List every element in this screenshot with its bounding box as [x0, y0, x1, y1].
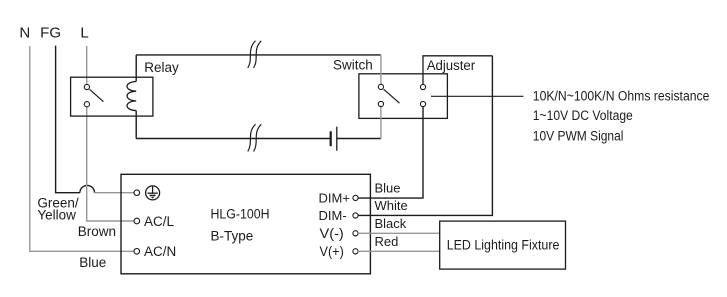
terminal DIM+ pin	[353, 195, 358, 200]
switch blade	[384, 89, 400, 103]
note line 1: ohms resistance	[533, 89, 710, 104]
wire FG vertical+horizontal (black, from FG down to ground row)	[56, 46, 80, 193]
note line 3: pwm signal	[533, 128, 624, 143]
adjuster top pin	[420, 84, 425, 89]
battery BT positive long plate	[336, 127, 338, 151]
terminal DIM- label	[319, 208, 347, 223]
wire L upper (grey, from L down to relay contact)	[86, 46, 88, 85]
node L label	[80, 25, 88, 42]
svg-text:Relay: Relay	[144, 60, 179, 75]
break marks on bottom wire	[248, 124, 261, 151]
wire N (grey, from N down and right to AC/N terminal)	[30, 46, 134, 251]
svg-text:White: White	[375, 198, 408, 213]
wire switch riser lower (grey)	[380, 107, 382, 139]
adjuster wiper pointer line	[431, 95, 523, 97]
svg-text:N: N	[19, 25, 30, 42]
switch bottom pin	[378, 101, 383, 106]
wire switch riser upper (grey)	[380, 55, 382, 85]
terminal AC/L label	[144, 214, 175, 229]
svg-text:Red: Red	[375, 234, 399, 249]
svg-text:HLG-100H: HLG-100H	[211, 207, 270, 222]
svg-text:Switch: Switch	[333, 57, 373, 72]
svg-text:DIM+: DIM+	[319, 191, 350, 206]
switch box	[359, 74, 448, 119]
terminal DIM+ label	[319, 191, 350, 206]
terminal V(-) label	[320, 226, 344, 241]
wire battery to switch riser	[337, 138, 381, 140]
wire label Blue (AC/N)	[79, 255, 106, 270]
wire label Green/Yellow (FG)	[37, 195, 79, 222]
svg-text:Adjuster: Adjuster	[427, 58, 476, 73]
svg-text:1~10V DC Voltage: 1~10V DC Voltage	[533, 108, 633, 123]
adjuster label	[427, 58, 476, 73]
relay contact blade	[90, 89, 104, 101]
wire DIM+ riser to adjuster	[358, 107, 423, 199]
power supply U1 HLG-100H box	[121, 174, 370, 273]
LED lighting fixture label	[447, 237, 560, 252]
svg-text:V(+): V(+)	[320, 244, 344, 259]
svg-text:LED Lighting Fixture: LED Lighting Fixture	[447, 237, 560, 252]
psu model label HLG-100H	[211, 207, 270, 222]
svg-text:Yellow: Yellow	[37, 208, 76, 223]
break marks on top wire	[248, 41, 261, 68]
terminal V(-) pin	[353, 231, 358, 236]
battery BT negative short plate	[330, 131, 332, 146]
wire hop over L line	[80, 185, 95, 192]
svg-text:10K/N~100K/N Ohms resistance: 10K/N~100K/N Ohms resistance	[533, 89, 710, 104]
svg-text:AC/L: AC/L	[144, 214, 175, 229]
terminal AC/N pin	[134, 249, 140, 255]
switch label	[333, 57, 373, 72]
svg-text:Blue: Blue	[375, 181, 401, 196]
wire label White (DIM-)	[375, 198, 408, 213]
node FG label	[40, 25, 61, 42]
wire label Brown (AC/L)	[78, 224, 116, 239]
terminal V(+) pin	[353, 249, 358, 254]
adjuster box top edge	[423, 56, 492, 85]
svg-text:10V PWM Signal: 10V PWM Signal	[533, 128, 624, 143]
terminal AC/N label	[144, 244, 176, 259]
note line 2: dc voltage	[533, 108, 633, 123]
svg-text:B-Type: B-Type	[211, 228, 254, 243]
relay coil	[127, 82, 136, 111]
wire label Black (V-)	[375, 216, 407, 231]
psu type label B-Type	[211, 228, 254, 243]
wire DIM- to adjuster right edge	[358, 56, 492, 216]
svg-text:Black: Black	[375, 216, 407, 231]
wire label Red (V+)	[375, 234, 399, 249]
svg-text:DIM-: DIM-	[319, 208, 347, 223]
LED lighting fixture box	[440, 221, 566, 269]
terminal FG pin	[134, 190, 140, 196]
svg-text:Brown: Brown	[78, 224, 116, 239]
wire V(-) to LED fixture (grey)	[358, 232, 440, 234]
svg-text:V(-): V(-)	[320, 226, 344, 241]
relay contact bottom pin	[84, 102, 89, 107]
relay contact top pin	[84, 84, 89, 89]
terminal AC/L pin	[134, 218, 140, 224]
wire loop bottom horizontal left of battery	[136, 138, 331, 140]
wire FG to ground terminal (grey)	[95, 192, 134, 194]
wire loop left vertical (through coil)	[135, 55, 137, 139]
relay label	[144, 60, 179, 75]
relay K1 box	[71, 77, 153, 116]
wire loop top horizontal	[136, 54, 381, 56]
wire V(+) to LED fixture (grey)	[358, 250, 440, 252]
svg-text:Blue: Blue	[79, 255, 106, 270]
terminal V(+) label	[320, 244, 344, 259]
protective earth symbol	[146, 186, 160, 200]
svg-text:L: L	[80, 25, 88, 42]
wire label Blue (DIM+)	[375, 181, 401, 196]
node N label	[19, 25, 30, 42]
svg-text:AC/N: AC/N	[144, 244, 176, 259]
switch top pin	[378, 84, 383, 89]
svg-text:FG: FG	[40, 25, 61, 42]
adjuster bottom pin	[420, 101, 425, 106]
terminal DIM- pin	[353, 213, 358, 218]
wire L lower (grey, relay contact to AC/L terminal)	[87, 107, 134, 221]
